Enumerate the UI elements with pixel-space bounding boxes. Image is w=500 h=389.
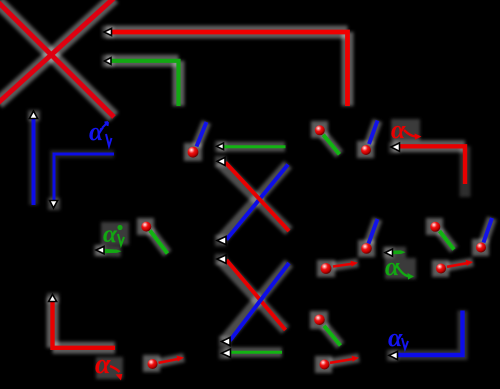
label L1 blue alpha: [89, 117, 112, 146]
wire halo: top red horizontal: [106, 26, 348, 39]
arrowhead of bottom-right blue L: [389, 351, 398, 359]
wire halo: P3 blue diagonal: [220, 165, 288, 241]
bead B4 with green tick: [141, 222, 167, 254]
arrowhead halos: [28, 26, 400, 361]
arrowhead of bottom-left red L (up): [49, 295, 57, 302]
halo: left green stub: [96, 251, 121, 252]
bead halos: [137, 121, 489, 373]
svg-text:α: α: [89, 117, 104, 146]
wire: P4 red diagonal: [227, 260, 286, 330]
wire halo: X leg A: [0, 2, 114, 117]
wire halo: P5 blue diagonal: [224, 263, 289, 341]
bead B1 with blue tick: [188, 122, 207, 158]
label L4 green alpha with arrow: [385, 252, 414, 281]
arrowhead P2: [217, 157, 225, 165]
wire: blue L V2: [54, 154, 114, 200]
wire halo: green top vertical: [173, 61, 185, 106]
arrowhead of top red wire: [104, 28, 112, 35]
red crossing X leg B: [0, 0, 114, 103]
wire: P1 green horizontal: [224, 145, 286, 148]
bead B10 with red arrow: [148, 356, 185, 370]
wire halo: bottom-right blue L: [391, 311, 463, 356]
wire halo: P6 green line: [224, 347, 282, 357]
arrowhead P1: [217, 143, 224, 150]
arrowhead of left green stub: [96, 246, 104, 253]
arrowhead of V2 (down): [50, 201, 58, 209]
tick halos: [150, 121, 492, 363]
label L6 red alpha with down arrow: [95, 349, 122, 381]
wire halo: P2 red diagonal: [219, 162, 289, 231]
wire: P5 blue diagonal: [230, 263, 289, 341]
svg-text:α: α: [391, 115, 406, 144]
svg-text:α: α: [103, 221, 118, 248]
bead B3 with blue tick: [361, 121, 378, 156]
wire: top green with corner: [111, 61, 179, 106]
wire: P3 blue diagonal: [227, 165, 289, 240]
wire: top-right red L: [399, 146, 465, 184]
wire: P6 green horizontal: [231, 351, 282, 354]
arrowhead of V1 (up): [29, 111, 37, 119]
wire halo: bottom-left red L: [47, 297, 59, 348]
wire halo: top-right red L: [393, 140, 465, 152]
wire halo: blue vertical V1: [29, 113, 38, 205]
wire: top red with corner: [111, 32, 348, 106]
wire halo: P4 red diagonal: [220, 260, 286, 331]
bead B12 with blue tick: [361, 219, 377, 254]
label L2 green alpha: [103, 221, 124, 248]
wire: blue vertical V1: [32, 118, 36, 205]
wire: P2 red diagonal: [226, 163, 290, 232]
wire: bottom-left red L: [53, 300, 116, 348]
arrowhead P5: [222, 337, 231, 345]
svg-text:α: α: [388, 323, 403, 352]
terminal: right green stub: [393, 250, 406, 254]
arrowhead of top green wire: [105, 58, 112, 65]
wire halo: top red vertical: [342, 32, 354, 106]
arrowhead of top-right red L: [391, 143, 400, 151]
label halos: [96, 119, 420, 379]
arrowhead P3: [217, 236, 226, 244]
bead B9 with red arrow: [320, 356, 360, 370]
wire halo: blue L V2: [54, 154, 114, 204]
label L3 red alpha with arrow: [391, 115, 422, 144]
wire halo: X leg B: [0, 0, 114, 103]
bead B8 with green tick: [314, 315, 340, 346]
bead B6 with blue tick: [476, 218, 492, 253]
wire: bottom-right blue L: [398, 311, 463, 356]
arrowhead of right green stub: [385, 249, 393, 256]
bead B5 with green tick: [430, 222, 454, 250]
arrowhead P6: [222, 349, 231, 357]
label L5 blue alpha: [388, 323, 408, 352]
bead B11 with red arrow: [321, 261, 358, 274]
red crossing X leg A: [0, 2, 114, 117]
svg-text:α: α: [95, 349, 111, 380]
arrowhead P4: [217, 255, 226, 263]
bead B2 with green tick: [315, 125, 340, 154]
bead B7 with red arrow: [436, 260, 473, 274]
halo: right green stub: [385, 247, 406, 258]
wire halo: green top horizontal: [106, 55, 179, 67]
wire halo: P1 green line: [218, 142, 285, 152]
terminal: left green stub: [104, 249, 122, 253]
